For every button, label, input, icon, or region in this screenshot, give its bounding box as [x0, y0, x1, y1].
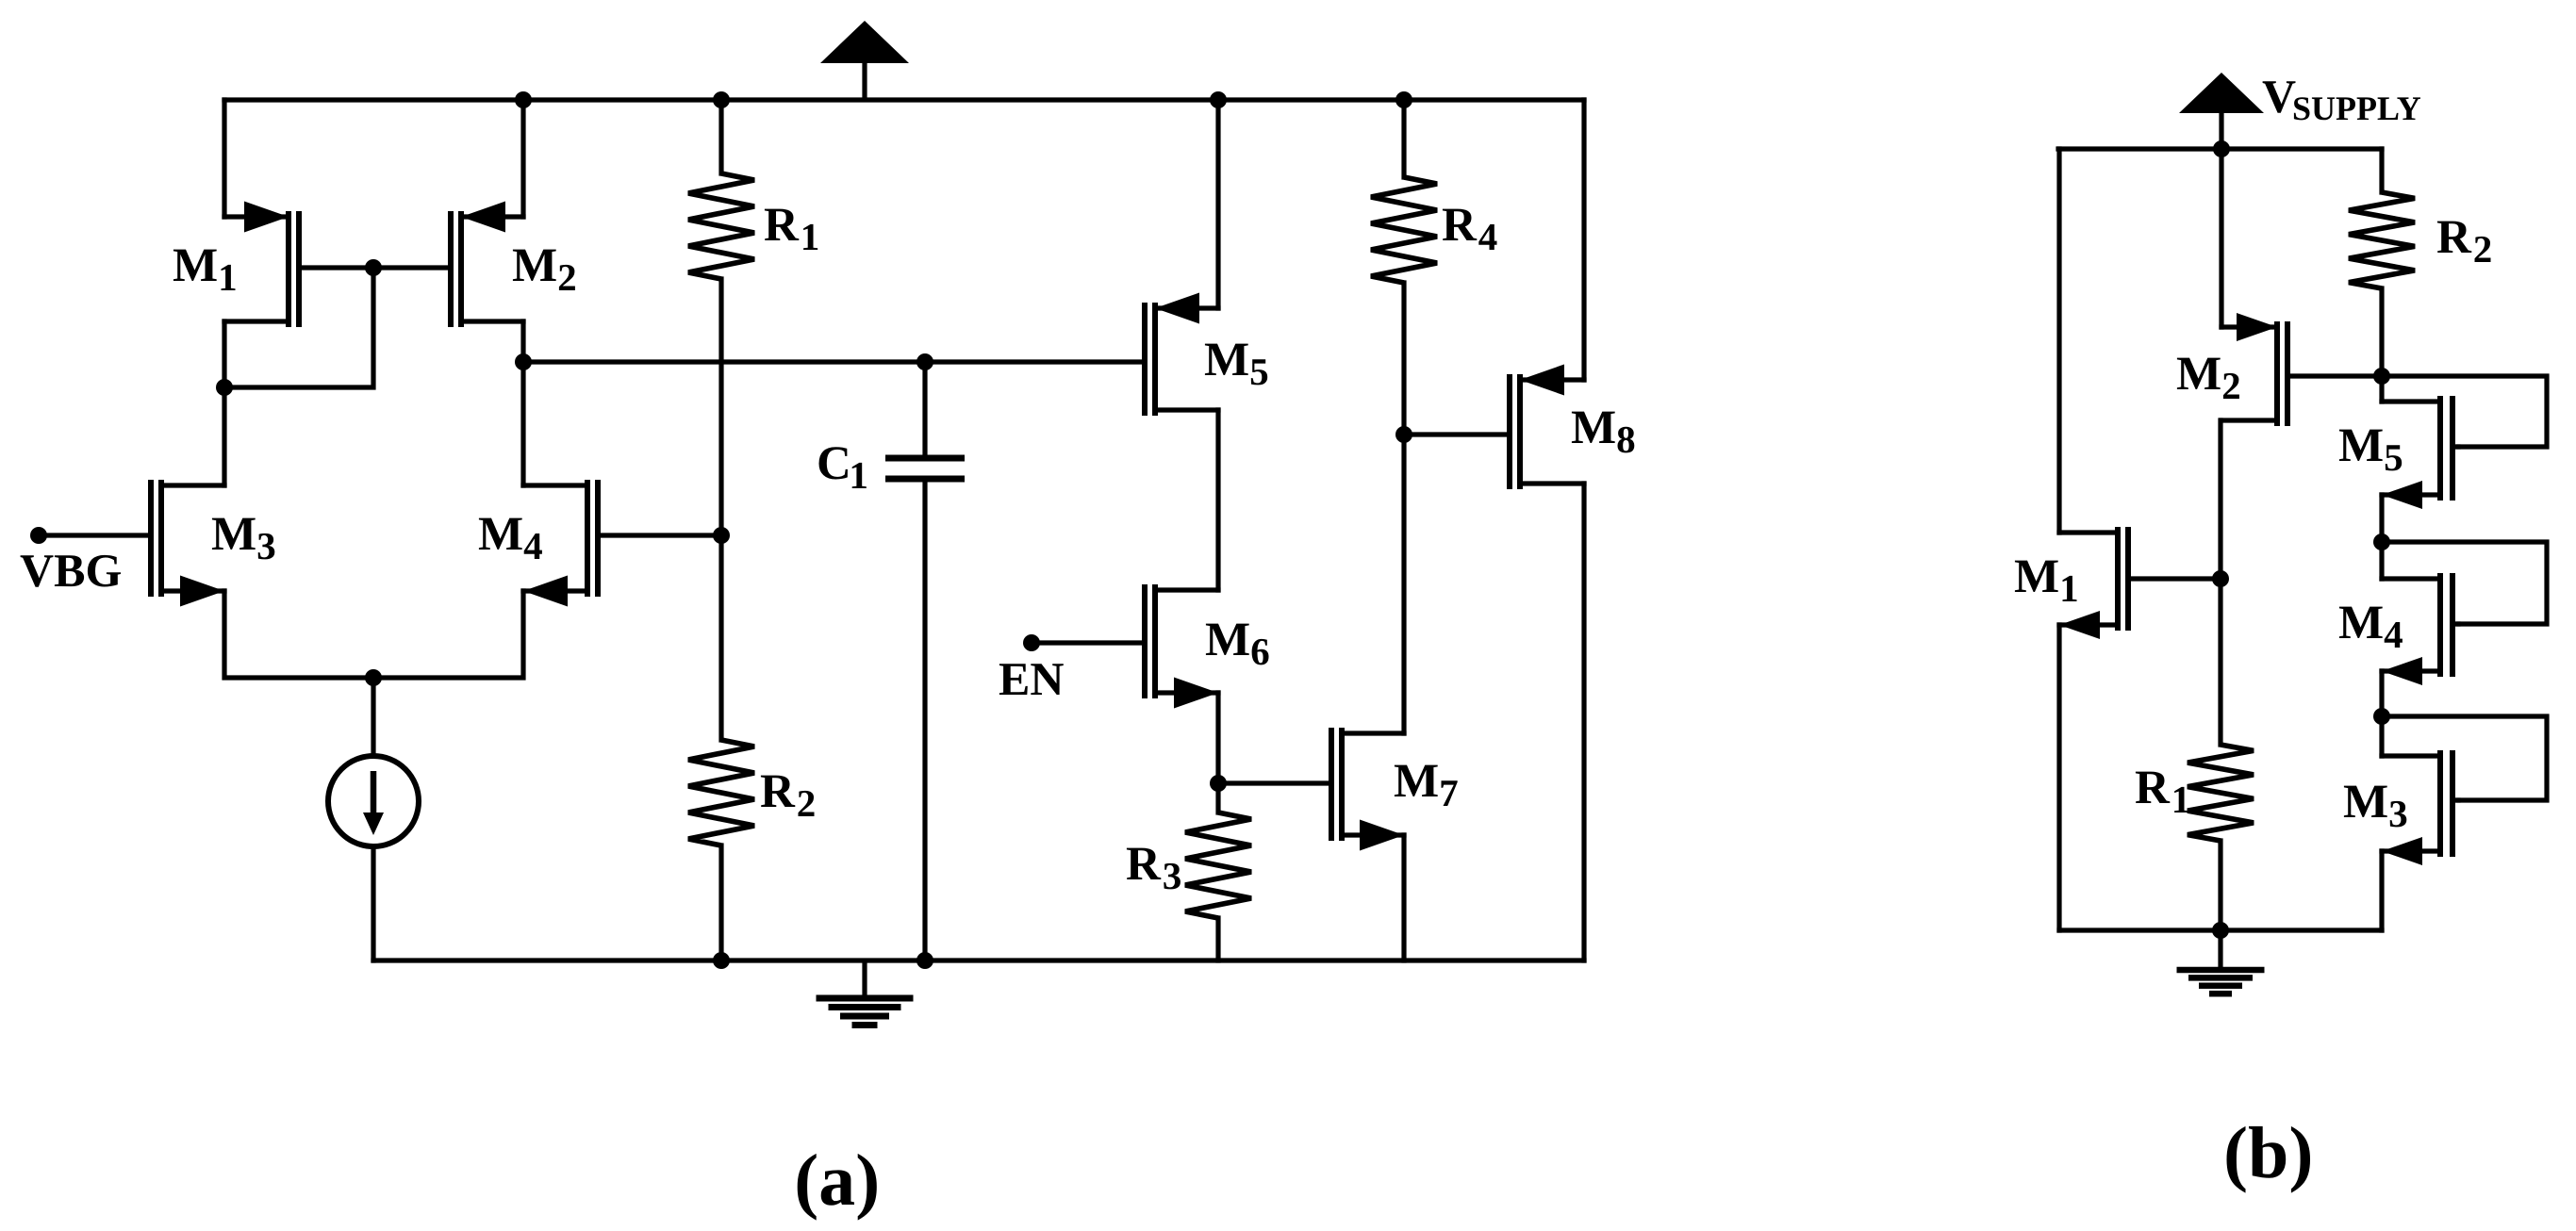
wire M2 drain down: [520, 321, 525, 485]
wire M2 source to rail: [520, 100, 525, 217]
node M5b-M4b junction: [2373, 533, 2390, 550]
transistor M3: [39, 480, 224, 607]
label V of VSUPPLY: [2263, 81, 2296, 113]
node M2 drain junction: [515, 353, 532, 370]
transistor M8: [1404, 365, 1584, 490]
label M1: [173, 250, 236, 290]
label R1 (b): [2136, 772, 2188, 812]
label M1 (b): [2015, 561, 2077, 601]
node gate junction M1-M2: [365, 259, 382, 276]
transistor M4 (b): [2382, 573, 2458, 685]
node rail junction above M2: [515, 91, 532, 108]
wire M3b gate loop: [2382, 716, 2547, 800]
wire M5b source down: [2379, 495, 2384, 542]
wire bottom rail (b): [2059, 927, 2382, 932]
wire R2b bottom: [2379, 288, 2384, 376]
label M5: [1205, 344, 1267, 386]
label R1: [765, 209, 817, 250]
wire R4 top: [1401, 100, 1406, 177]
transistor M3 (b): [2382, 750, 2458, 865]
transistor M4: [523, 480, 721, 607]
wire R1 to R2: [718, 279, 723, 740]
wire M4b source down: [2379, 671, 2384, 716]
wire top rail (b): [2058, 146, 2382, 151]
resistor R2: [688, 740, 754, 845]
node rail junction above M5: [1210, 91, 1227, 108]
wire M5 source to rail: [1215, 100, 1220, 308]
node R2 ground junction: [713, 952, 730, 969]
resistor R1: [688, 173, 754, 279]
caption (a): [798, 1154, 877, 1221]
wire M3 drain up: [222, 387, 226, 485]
resistor R4: [1371, 177, 1437, 283]
wire M3b drain drop: [2379, 716, 2384, 756]
current source I1: [328, 756, 419, 846]
transistor M7: [1331, 728, 1404, 851]
transistor M1: [224, 202, 373, 328]
node M1b gate junction: [2212, 570, 2229, 587]
wire gate junction down to M1 drain: [224, 268, 373, 387]
wire C1 top lead: [922, 362, 927, 455]
wire M8 source to rail: [1581, 100, 1586, 380]
wire M3b source to ground rail: [2379, 851, 2384, 930]
label M3 (b): [2344, 786, 2406, 828]
transistor M1 (b): [2059, 527, 2221, 639]
label R3: [1127, 848, 1181, 890]
wire M6 source down: [1215, 693, 1220, 783]
wire M5 drain to M6 drain: [1215, 410, 1220, 590]
node C1 ground junction: [916, 952, 933, 969]
node tail junction: [365, 669, 382, 686]
wire R2b top: [2379, 149, 2384, 192]
wire M4b drain drop: [2379, 542, 2384, 579]
wire C1 bottom lead: [922, 482, 927, 960]
wire M2b drain down: [2218, 420, 2222, 745]
wire M3 source to tail: [224, 591, 373, 678]
terminal VBG: [30, 527, 47, 544]
label M8: [1572, 412, 1634, 453]
node R1 ground junction (b): [2212, 922, 2229, 939]
wire tail to current source: [371, 678, 375, 755]
power supply symbol VSUPPLY (b): [2179, 73, 2264, 149]
node rail junction above R1: [713, 91, 730, 108]
wire M1 source to rail: [222, 100, 226, 217]
label M4 (b): [2339, 607, 2403, 648]
ground (b): [2177, 930, 2265, 993]
resistor R1 (b): [2188, 745, 2254, 841]
transistor M2 (b): [2221, 313, 2382, 426]
node R2b bottom junction: [2373, 368, 2390, 385]
label M6: [1206, 624, 1269, 665]
transistor M6: [1032, 584, 1218, 709]
wire R1b to ground rail: [2218, 841, 2222, 930]
label EN: [999, 664, 1064, 695]
node supply junction (b): [2213, 140, 2230, 157]
label VBG: [21, 555, 121, 587]
label C1: [819, 447, 867, 488]
wire M6 source to M7 gate: [1218, 780, 1331, 785]
wire R2 to ground rail: [718, 845, 723, 960]
wire R3 to ground rail: [1215, 918, 1220, 960]
label R2 (b): [2437, 222, 2491, 262]
wire bottom ground rail (a): [373, 958, 1584, 962]
wire R3 top: [1215, 783, 1220, 812]
wire M7 drain up: [1401, 435, 1406, 733]
node M6 source junction: [1210, 775, 1227, 792]
wire M1b source to ground rail: [2056, 625, 2061, 930]
resistor R3: [1185, 812, 1251, 918]
node M4b-M3b junction: [2373, 708, 2390, 725]
label M5 (b): [2339, 430, 2402, 471]
wire M7 source to ground rail: [1401, 835, 1406, 960]
wire R1 top: [718, 100, 723, 173]
node M1 drain junction: [216, 379, 233, 396]
label M2: [513, 250, 575, 290]
wire M2 drain to M5 gate: [523, 359, 1145, 364]
node M8 gate junction: [1395, 426, 1412, 443]
wire M5b gate loop: [2382, 376, 2547, 447]
wire M1 drain down: [222, 321, 226, 387]
label M2 (b): [2177, 358, 2239, 399]
node C1 top junction: [916, 353, 933, 370]
resistor R2 (b): [2349, 192, 2415, 288]
transistor M2: [373, 202, 523, 328]
caption (b): [2227, 1126, 2311, 1193]
wire M4 source to tail: [373, 591, 523, 678]
wire supply to M2b source: [2219, 149, 2223, 327]
terminal EN: [1023, 634, 1040, 651]
label SUPPLY subscript: [2294, 97, 2420, 120]
label R2: [761, 776, 815, 816]
wire M8 drain to ground rail: [1581, 484, 1586, 960]
wire R4 bottom: [1401, 283, 1406, 435]
label M7: [1395, 765, 1458, 806]
transistor M5: [1145, 293, 1218, 417]
wire top supply rail (a): [224, 97, 1584, 102]
capacitor C1: [885, 458, 965, 479]
transistor M5 (b): [2382, 396, 2458, 509]
node M4 gate junction on R1-R2: [713, 527, 730, 544]
wire M4b gate loop: [2382, 542, 2547, 624]
power supply symbol VDD (a): [820, 21, 909, 100]
label M4: [479, 518, 542, 559]
node rail junction above R4: [1395, 91, 1412, 108]
label M3: [212, 518, 274, 560]
wire M5b drain drop: [2379, 376, 2384, 402]
label R4: [1443, 209, 1497, 250]
wire M1b drain to rail: [2056, 149, 2061, 533]
wire current source to ground rail: [371, 847, 375, 960]
ground (a): [817, 960, 914, 1026]
